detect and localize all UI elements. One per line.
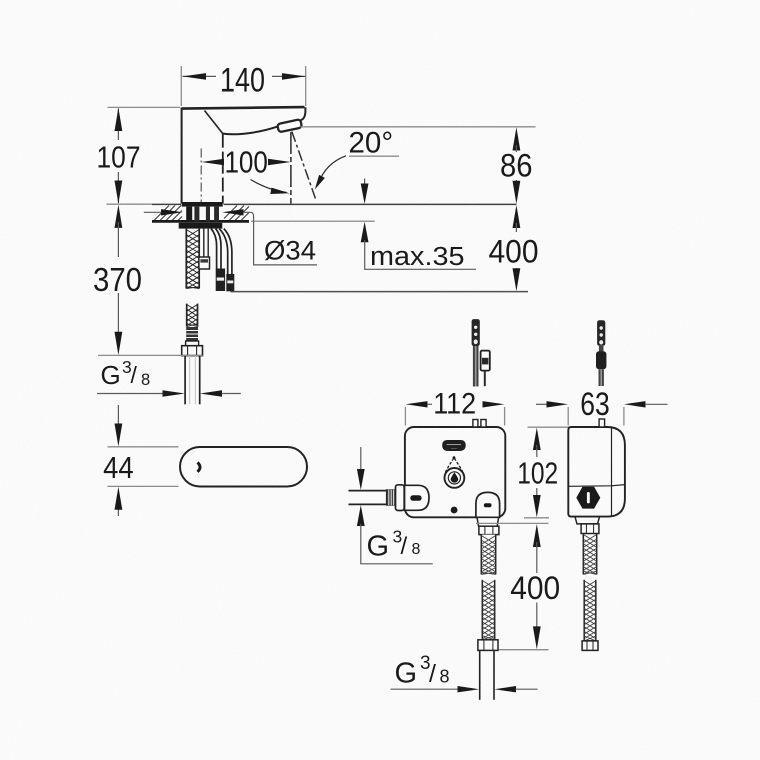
leader arc from 20deg to stream [319,156,347,183]
cable C connector [597,320,605,346]
max.35 upper arrow [364,179,366,187]
G3/8 pipe arrows (bottom) [391,688,460,690]
hose1 top nut [479,526,499,534]
supply hose 1 [211,229,217,269]
dimension 107 extension line top [108,106,181,108]
dimension 140 line left + arrow [183,75,217,77]
supply hose 2 [219,229,228,274]
faucet body left edge [181,108,183,204]
faucet top view pill [180,447,307,487]
cable A braided wire [473,346,479,387]
box1 bottom center dot [451,507,458,514]
cable C sleeve [596,351,606,369]
dimension 63 extension lines [567,407,569,426]
dimension 102 bottom reference line [524,517,549,519]
deck level extension line left [107,203,153,205]
dimension 86 reference line at aerator level [301,126,536,128]
countertop deck top line left [152,203,181,205]
label G 3/8 (left) [101,357,151,390]
dimension 400 bottom reference line [499,649,549,651]
hose1 pipe end [479,650,481,699]
inlet flange [396,485,405,511]
control box front view body [405,427,505,517]
faucet centerline [200,149,202,204]
water stream centerline dashed [290,132,292,204]
box2 seam horizontal [569,485,625,487]
dimension 86 line + arrows [513,127,521,150]
deck bottom thick line [152,220,249,223]
dimension 112 line + arrows [406,401,428,407]
label 20deg underline [349,155,399,157]
G3/8 arrows at pipe [97,393,163,395]
water drop icon [445,458,454,476]
box2 inner seam vertical [611,427,613,516]
deck hatching right [224,206,249,221]
faucet spout underside curve [223,127,278,135]
G3/8 inlet dimension arrows [360,447,362,471]
dimension 140 line right + arrow [272,75,306,77]
sensor cable tube [203,229,205,257]
hose1 outlet trapezoid [477,517,499,526]
box2 wire stub [599,419,605,427]
shank parts through deck [186,207,192,222]
hose ends reference line [231,291,529,293]
countertop deck top line right [224,203,517,205]
water stream 20deg diagonal [292,132,316,201]
cable B wire [484,371,486,386]
cable A connector [472,319,480,346]
hose2 braid lower [584,580,596,641]
faucet lower body right edge [222,134,224,204]
hose1 bottom nut [478,640,498,651]
inlet pipe [349,490,387,492]
box2 knob [576,487,600,509]
inlet thread [386,490,395,505]
faucet body top [182,107,305,109]
hose1 braid lower [482,580,494,640]
GROHE logo capsule [442,440,466,451]
cable C tail [599,369,604,386]
locking nut under deck [179,223,223,229]
cable B connector [481,351,490,371]
control box side view body [568,427,625,517]
dimension 100 left arrow [202,159,225,165]
dimension 102 top reference line [528,426,570,428]
threaded shank below deck [186,229,199,289]
hose2 braid upper [583,534,596,575]
dimension 400 top reference line (bottom drawing) [476,522,548,524]
cable C neck [599,346,604,352]
max.35 lower arrow + leader [361,222,369,243]
hose 1 connector [216,269,225,292]
hose2 outlet trapezoid [575,517,600,524]
dimension 107 line + arrows [117,109,119,141]
dimension 140 extension line right [305,66,307,106]
dimension 100 right arrow [268,159,291,165]
faucet base flange [182,202,223,207]
diameter 34 arrow right and leader [222,209,243,215]
dimension 370 line + arrows [115,205,123,228]
faucet right edge curving to aerator [300,107,305,120]
dimension 102 line + arrows [533,428,541,450]
angle arc with arrow to centerline [251,180,287,193]
supply pipe smooth [184,356,186,405]
pipe hex nut [182,346,203,356]
hose1 braid upper [481,535,495,575]
dimension 400 line + arrows (upper right) [513,205,521,228]
faucet aerator [277,119,302,132]
box1 bottom outlet lobe [476,492,500,517]
hose2 bottom nut [582,641,598,651]
diameter 34 arrow left [144,211,162,213]
dimension 63 arrows outside [536,403,549,405]
hose 2 connector [226,274,234,291]
hose2 top nut [581,524,599,534]
label G 3/8 (bottom) [395,653,450,690]
faucet spout crease diagonal [205,111,223,134]
deck hatching left [154,206,182,221]
max.35 deck bottom reference line [251,220,375,222]
dimension 140 extension line left [180,66,182,106]
sensor window mark [198,463,201,472]
dimension 112 extension lines [404,407,406,426]
dimension 400 line + arrows (bottom) [533,524,541,547]
sensor cable plug [199,257,210,269]
box1 wire stubs [473,420,478,428]
paper noise overlay [0,0,1,1]
pipe small ring [186,341,199,346]
dimension 370 reference line [98,354,203,356]
dimension 44 extension lines [108,446,179,448]
pipe collar striped [186,327,198,341]
supply pipe threaded section [187,304,198,327]
box1 left connector lobe [405,485,430,510]
dimension 44 arrows outside [117,405,119,426]
label G 3/8 (middle) [367,527,421,563]
